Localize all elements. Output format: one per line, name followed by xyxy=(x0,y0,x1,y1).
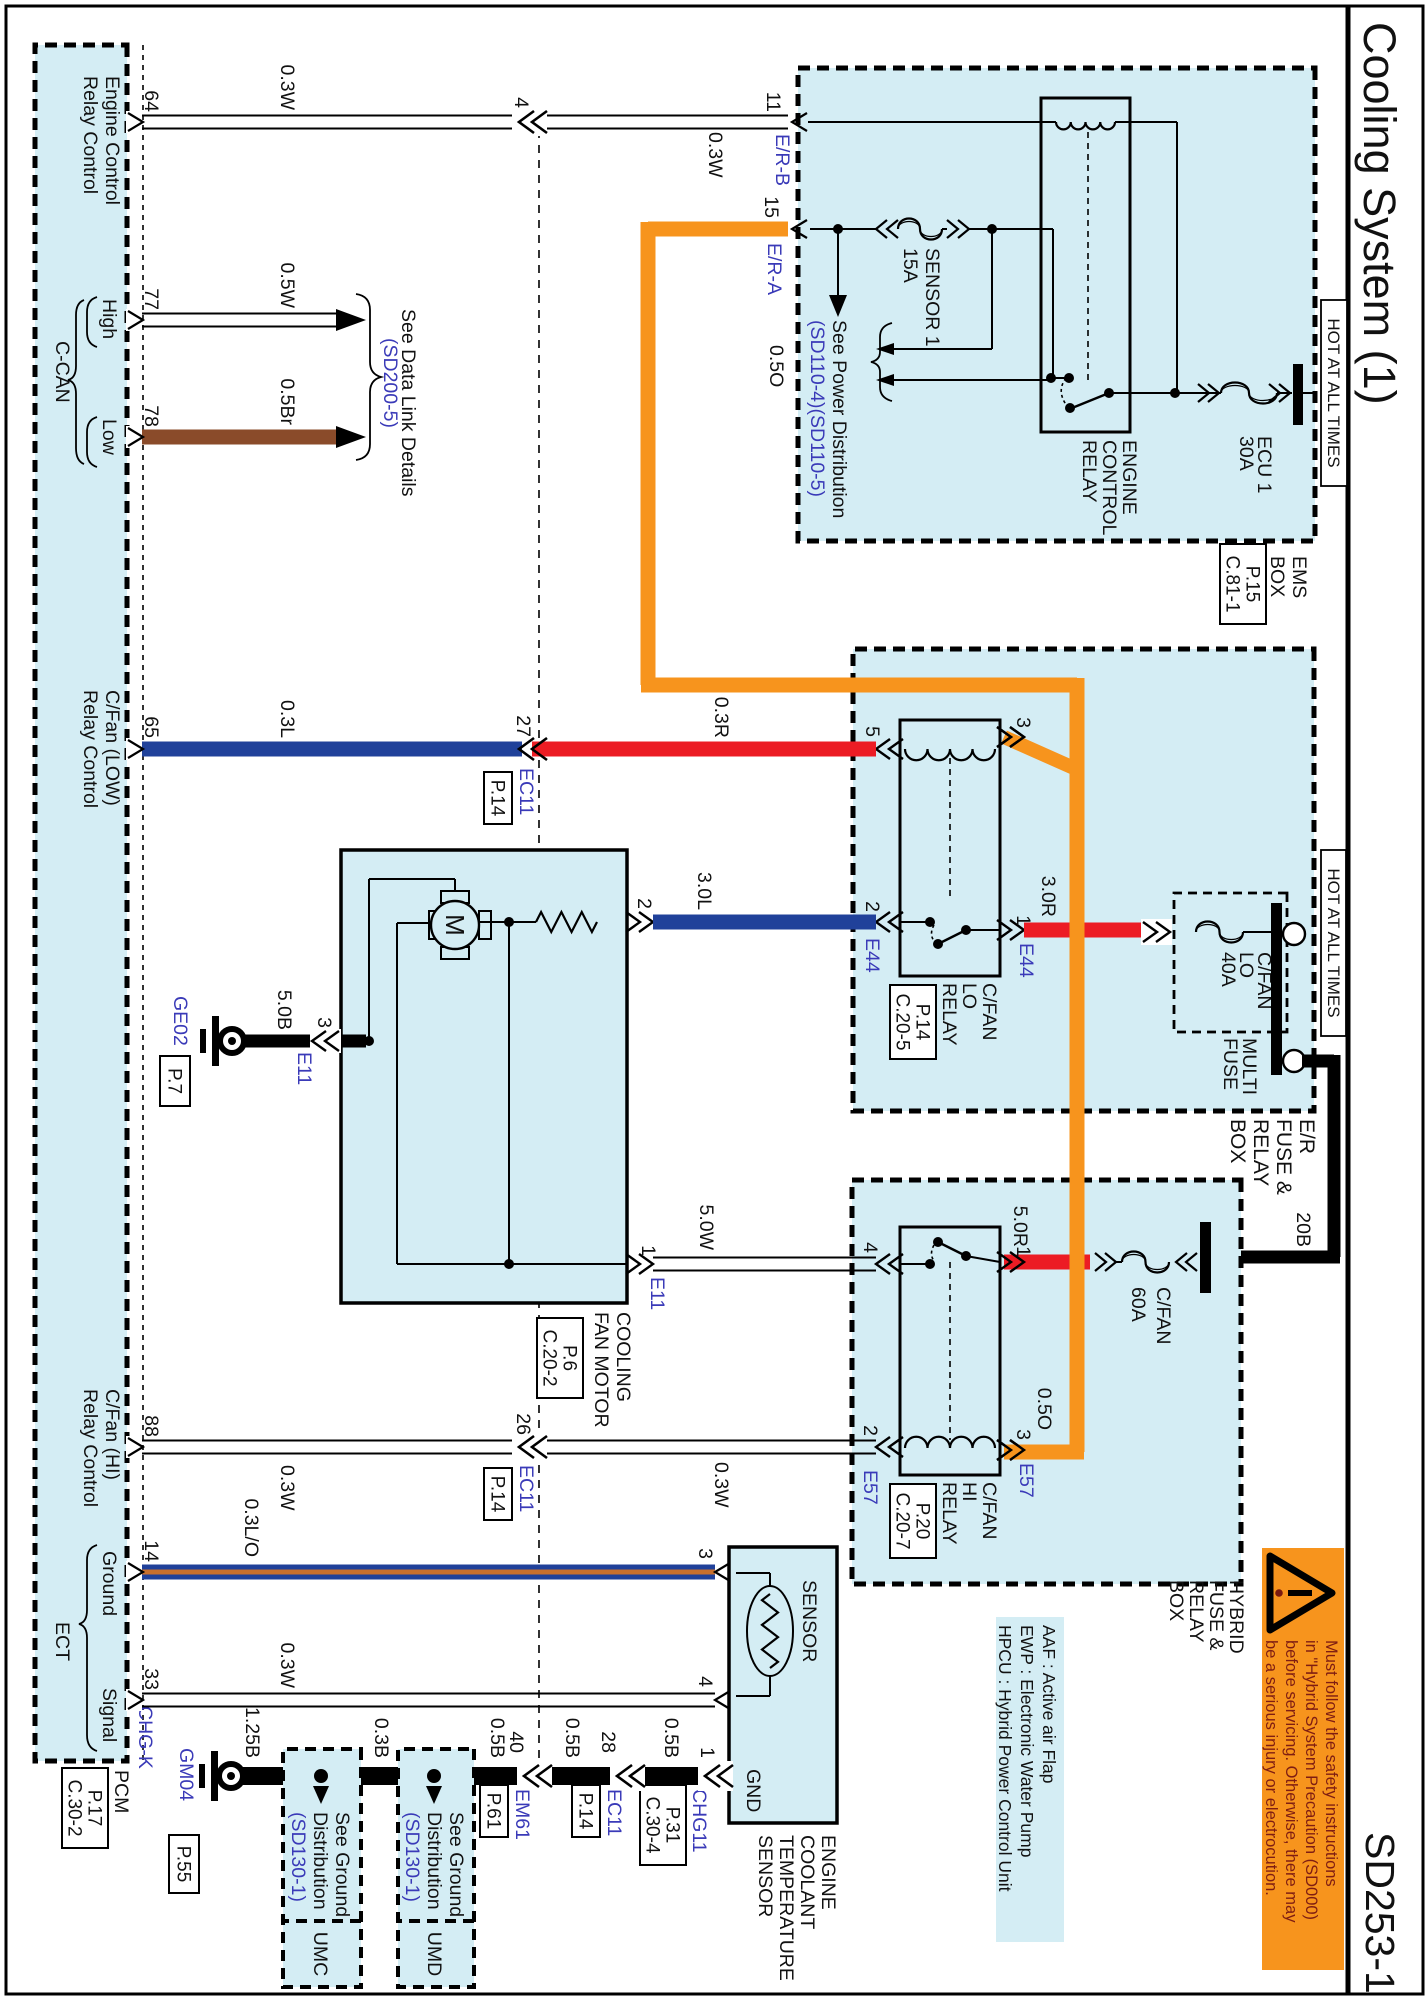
fuse F1: C/FAN LO 40A box xyxy=(1174,893,1287,1032)
svg-text:26: 26 xyxy=(512,1413,534,1435)
svg-text:HI: HI xyxy=(958,1482,980,1502)
motor pin 3 chevron + wire 5.0B to ground xyxy=(341,1035,366,1048)
LO relay pin 1 chevron xyxy=(1010,920,1024,940)
svg-text:See Ground: See Ground xyxy=(331,1812,353,1917)
warning triangle xyxy=(1270,1556,1332,1630)
ground GM04 xyxy=(219,1764,243,1788)
wire 0.5Br: PCM 78 to data link (brown) xyxy=(127,430,336,445)
EMS connector ref box P.15 C.81-1 xyxy=(1220,544,1266,624)
svg-text:E11: E11 xyxy=(646,1277,668,1310)
svg-text:0.3W: 0.3W xyxy=(276,1642,298,1688)
svg-text:5.0B: 5.0B xyxy=(273,990,295,1030)
svg-text:4: 4 xyxy=(694,1676,716,1687)
EMS pin 15 chevron (E/R-A) xyxy=(792,220,807,238)
LO relay ref box P.14 C.20-5 xyxy=(890,985,936,1059)
svg-text:EC11: EC11 xyxy=(515,1465,537,1512)
svg-text:60A: 60A xyxy=(1127,1287,1149,1322)
svg-text:0.3W: 0.3W xyxy=(276,1465,298,1511)
E/R FUSE & RELAY BOX (dashed) xyxy=(853,649,1314,1111)
svg-text:See Ground: See Ground xyxy=(445,1812,467,1917)
wire 0.5O: EMS pin 15 orange trunk xyxy=(648,222,788,237)
LO relay coil xyxy=(905,749,995,760)
motor ref box P.6 C.20-2 xyxy=(537,1318,583,1398)
node dot at B+ rail xyxy=(1170,388,1180,398)
svg-text:ENGINE: ENGINE xyxy=(1118,440,1140,515)
svg-text:E11: E11 xyxy=(293,1052,315,1085)
svg-text:SENSOR: SENSOR xyxy=(754,1835,776,1917)
LO relay switch xyxy=(900,921,926,923)
svg-text:1: 1 xyxy=(696,1747,718,1758)
svg-text:C.20-2: C.20-2 xyxy=(539,1329,560,1386)
fuse F2: C/FAN 60A xyxy=(1200,1222,1211,1293)
svg-text:C/Fan (HI): C/Fan (HI) xyxy=(101,1389,123,1480)
relay internal dashed link xyxy=(1087,132,1089,385)
HI relay switch xyxy=(900,1263,926,1265)
PCM connector dashed line xyxy=(142,45,144,1761)
svg-text:P.6: P.6 xyxy=(559,1345,580,1371)
svg-text:EC11: EC11 xyxy=(603,1789,625,1836)
in-line connector 26 (EC11) xyxy=(512,1433,547,1461)
svg-text:33: 33 xyxy=(140,1668,162,1690)
svg-text:88: 88 xyxy=(140,1415,162,1437)
sensor ref box P.31 C.30-4 xyxy=(640,1785,686,1865)
PCM pin 64 chevron xyxy=(126,111,142,133)
svg-text:P.61: P.61 xyxy=(483,1793,504,1830)
sensor pin 4 chevron xyxy=(715,1691,730,1709)
svg-text:Low: Low xyxy=(98,419,120,456)
svg-text:RELAY: RELAY xyxy=(938,1482,960,1545)
svg-text:(SD200-5): (SD200-5) xyxy=(379,338,401,428)
svg-text:28: 28 xyxy=(597,1731,619,1753)
svg-text:P.20: P.20 xyxy=(912,1503,933,1540)
orange trunk top layer (crosses red wires) xyxy=(1070,678,1077,693)
svg-text:RELAY: RELAY xyxy=(1078,440,1100,503)
svg-text:CHG11: CHG11 xyxy=(688,1789,710,1853)
svg-text:0.3L/O: 0.3L/O xyxy=(240,1498,262,1557)
orange redraw over hybrid box xyxy=(1070,1180,1085,1452)
svg-text:5: 5 xyxy=(861,726,883,737)
HOT AT ALL TIMES label 2 xyxy=(1321,850,1346,1036)
svg-text:COOLING: COOLING xyxy=(612,1312,634,1402)
svg-text:HPCU : Hybrid Power Control Un: HPCU : Hybrid Power Control Unit xyxy=(995,1625,1015,1892)
svg-text:FAN MOTOR: FAN MOTOR xyxy=(590,1312,612,1428)
LO relay pin 3 chevron xyxy=(1010,727,1024,747)
svg-text:E/R-B: E/R-B xyxy=(771,134,793,186)
data link brace xyxy=(356,294,381,460)
connector 1 chevron (CHG11) xyxy=(698,1761,733,1791)
svg-text:TEMPERATURE: TEMPERATURE xyxy=(775,1835,797,1981)
svg-text:before servicing. Otherwise, t: before servicing. Otherwise, there may xyxy=(1282,1640,1300,1923)
svg-text:77: 77 xyxy=(140,288,162,310)
motor pin 2 chevron xyxy=(639,912,653,932)
svg-text:Signal: Signal xyxy=(98,1688,120,1742)
svg-text:FUSE &: FUSE & xyxy=(1205,1580,1227,1650)
svg-text:C.20-7: C.20-7 xyxy=(892,1492,913,1549)
svg-text:(SD130-1): (SD130-1) xyxy=(287,1812,309,1902)
B+ rail vertical wire xyxy=(1109,392,1177,394)
relay switch NO contact xyxy=(1064,373,1074,383)
LO relay pin 2 chevron xyxy=(876,912,890,932)
title divider line xyxy=(1346,6,1351,1994)
wire 3.0R: LO relay pin 1 to C/FAN LO fuse (red) xyxy=(1024,923,1146,938)
motor internal wiring xyxy=(512,921,536,923)
svg-text:See Power Distribution: See Power Distribution xyxy=(828,320,850,518)
sensor fuse feed wire xyxy=(810,228,876,230)
ground distribution box UMC xyxy=(283,1749,361,1987)
svg-text:1.25B: 1.25B xyxy=(241,1707,263,1758)
relay K1: C/FAN LO RELAY rect xyxy=(900,720,1000,976)
svg-text:1: 1 xyxy=(1012,1246,1034,1257)
svg-text:(SD130-1): (SD130-1) xyxy=(401,1812,423,1902)
wire 0.3W: PCM pin 64 to EMS pin 11 xyxy=(535,115,788,117)
wire 0.5B/1.25B: sensor GND to GM04 (black bus) xyxy=(238,1767,729,1785)
svg-text:PCM: PCM xyxy=(110,1770,132,1813)
svg-text:3.0L: 3.0L xyxy=(693,872,715,910)
harness connector dashed line EC11 boundary xyxy=(538,130,540,1766)
svg-text:1: 1 xyxy=(637,1245,659,1256)
svg-text:CHG-K: CHG-K xyxy=(134,1706,156,1769)
HI relay pin 3 chevron xyxy=(1010,1440,1024,1460)
svg-text:30A: 30A xyxy=(1235,436,1257,471)
EMS pin 11 chevron xyxy=(808,121,1056,123)
svg-text:C.30-2: C.30-2 xyxy=(64,1779,85,1836)
svg-text:2: 2 xyxy=(859,1425,881,1436)
svg-text:ECT: ECT xyxy=(51,1622,73,1661)
HI relay internal dashed link xyxy=(949,1262,951,1440)
svg-text:11: 11 xyxy=(762,92,784,112)
svg-text:E44: E44 xyxy=(1015,943,1037,978)
HI relay pin 4 chevron xyxy=(876,1254,890,1274)
svg-text:0.3L: 0.3L xyxy=(276,700,298,738)
relay switch: stationary contact xyxy=(1104,388,1114,398)
motor internal resistor xyxy=(536,912,597,932)
svg-text:P.14: P.14 xyxy=(487,780,508,817)
svg-text:GE02: GE02 xyxy=(169,996,191,1046)
fuse SENSOR 1 15A xyxy=(876,220,887,238)
wire 0.3W: PCM 33 to sensor pin 4 xyxy=(127,1693,715,1695)
svg-text:C/FAN: C/FAN xyxy=(978,1482,1000,1539)
svg-text:High: High xyxy=(98,299,120,339)
svg-text:C.81-1: C.81-1 xyxy=(1222,555,1243,612)
svg-text:BOX: BOX xyxy=(1266,556,1288,597)
svg-text:RELAY: RELAY xyxy=(1249,1119,1272,1186)
svg-text:5.0W: 5.0W xyxy=(695,1204,717,1250)
svg-text:GM04: GM04 xyxy=(175,1748,197,1801)
svg-text:C/FAN: C/FAN xyxy=(1152,1287,1174,1344)
branch dot + arrow to UMD xyxy=(427,1769,441,1783)
svg-text:UMC: UMC xyxy=(309,1932,331,1976)
branch dot + arrow to UMC xyxy=(314,1769,328,1783)
warning box xyxy=(1262,1548,1344,1970)
svg-text:3.0R: 3.0R xyxy=(1037,876,1059,917)
svg-text:M: M xyxy=(440,914,470,936)
svg-text:C/FAN: C/FAN xyxy=(978,983,1000,1040)
svg-text:4: 4 xyxy=(510,97,532,108)
svg-text:C.20-5: C.20-5 xyxy=(892,993,913,1050)
svg-text:15A: 15A xyxy=(899,248,921,283)
PCM component strip xyxy=(35,45,127,1761)
motor M1 symbol xyxy=(441,891,469,903)
svg-text:E57: E57 xyxy=(859,1470,881,1505)
svg-text:Relay Control: Relay Control xyxy=(79,1389,101,1507)
svg-text:0.5B: 0.5B xyxy=(660,1718,682,1758)
svg-text:E44: E44 xyxy=(861,938,883,973)
LO relay pin 5 chevron xyxy=(876,739,890,759)
svg-text:Must follow the safety instruc: Must follow the safety instructions xyxy=(1322,1640,1340,1887)
PCM pin 88 chevron xyxy=(126,1436,142,1458)
wire 0.3R: conn 27 to LO relay pin 5 (red) xyxy=(532,742,876,757)
svg-text:0.5W: 0.5W xyxy=(276,262,298,308)
svg-text:14: 14 xyxy=(140,1540,162,1562)
svg-text:BOX: BOX xyxy=(1226,1119,1249,1163)
svg-text:SENSOR 1: SENSOR 1 xyxy=(921,248,943,347)
svg-text:SENSOR: SENSOR xyxy=(798,1580,820,1662)
relay K2: C/FAN HI RELAY rect xyxy=(900,1227,1000,1475)
svg-text:0.3W: 0.3W xyxy=(710,1462,732,1508)
arrow to power distribution xyxy=(837,229,839,295)
svg-text:0.5Br: 0.5Br xyxy=(276,378,298,425)
svg-text:0.3W: 0.3W xyxy=(276,64,298,110)
svg-text:0.3R: 0.3R xyxy=(710,697,732,738)
svg-text:HOT AT ALL TIMES: HOT AT ALL TIMES xyxy=(1324,868,1343,1017)
svg-text:HYBRID: HYBRID xyxy=(1225,1580,1247,1654)
COOLING FAN MOTOR box xyxy=(341,850,627,1303)
svg-text:GND: GND xyxy=(742,1769,764,1812)
in-line connector 28 (EC11) xyxy=(610,1761,645,1791)
fuse ECU 1 30A xyxy=(1198,392,1221,394)
svg-text:P.17: P.17 xyxy=(84,1790,105,1827)
ECU1 fuse bus bar xyxy=(1293,364,1303,425)
wire 0.5W: PCM 77 to data link xyxy=(127,313,338,315)
motor pin 1 chevron xyxy=(639,1254,653,1274)
ENGINE COOLANT TEMPERATURE SENSOR box xyxy=(729,1547,837,1823)
svg-text:RELAY: RELAY xyxy=(1185,1580,1207,1643)
wire 3.0L: LO relay pin 2 to motor pin 2 (blue) xyxy=(653,915,876,930)
wire 0.3L/O: PCM 14 to sensor pin 3 (blue/orange) xyxy=(127,1565,715,1580)
svg-text:0.5B: 0.5B xyxy=(486,1718,508,1758)
wire 20B: multifuse to C/FAN 60A (black) xyxy=(1302,1055,1334,1068)
svg-text:Engine Control: Engine Control xyxy=(101,76,123,205)
svg-text:Distribution: Distribution xyxy=(309,1812,331,1910)
svg-text:4: 4 xyxy=(859,1242,881,1253)
ground GE02 xyxy=(220,1029,244,1053)
orange redraw over box fill xyxy=(641,678,1077,693)
svg-text:EMS: EMS xyxy=(1288,556,1310,598)
svg-text:0.5O: 0.5O xyxy=(765,345,787,387)
relay switch arm xyxy=(1072,393,1109,408)
svg-text:40A: 40A xyxy=(1217,952,1239,987)
MULTI FUSE terminal circles xyxy=(1283,923,1305,945)
branch arrows (to SD110 circuits) xyxy=(991,229,993,349)
svg-text:LO: LO xyxy=(958,983,980,1009)
wire from fuse to switch xyxy=(1052,229,1054,378)
svg-text:Relay Control: Relay Control xyxy=(79,76,101,194)
svg-text:CONTROL: CONTROL xyxy=(1098,440,1120,535)
svg-text:C.30-4: C.30-4 xyxy=(642,1796,663,1853)
svg-text:P.31: P.31 xyxy=(662,1807,683,1844)
HI relay coil xyxy=(905,1437,995,1448)
in-line connector 40 (EM61) xyxy=(517,1761,552,1791)
svg-text:3: 3 xyxy=(694,1548,716,1559)
HI relay pin 2 chevron xyxy=(876,1437,890,1457)
svg-text:P.14: P.14 xyxy=(575,1793,596,1830)
svg-text:Distribution: Distribution xyxy=(423,1812,445,1910)
svg-text:E/R: E/R xyxy=(1295,1119,1318,1154)
legend box xyxy=(996,1617,1064,1942)
svg-text:SD253-1: SD253-1 xyxy=(1357,1832,1403,1994)
relay coil (on pin11 wire) xyxy=(1056,122,1115,129)
svg-text:Ground: Ground xyxy=(98,1551,120,1616)
svg-text:E/R-A: E/R-A xyxy=(763,243,785,295)
HI relay ref box P.20 C.20-7 xyxy=(890,1484,936,1558)
svg-text:64: 64 xyxy=(140,90,162,112)
EMS BOX (dashed) xyxy=(798,68,1315,541)
HI relay pin 3 chevron (over orange) xyxy=(1010,1440,1024,1460)
svg-text:3: 3 xyxy=(1012,717,1034,728)
svg-text:0.5B: 0.5B xyxy=(561,1718,583,1758)
svg-text:0.3B: 0.3B xyxy=(370,1718,392,1758)
PCM pin 33 chevron xyxy=(128,1691,143,1709)
wire 0.3L: PCM 65 to conn 27 (blue) xyxy=(127,742,522,757)
svg-text:FUSE: FUSE xyxy=(1219,1038,1241,1090)
wire 0.3W: PCM 88 to conn 26 to HI relay pin 2 xyxy=(535,1440,876,1442)
svg-text:P.14: P.14 xyxy=(487,1476,508,1513)
HOT AT ALL TIMES label 1 xyxy=(1321,300,1347,486)
svg-text:MULTI: MULTI xyxy=(1238,1038,1260,1095)
MULTI FUSE bus bar xyxy=(1271,903,1282,1075)
svg-text:15: 15 xyxy=(760,196,782,218)
svg-text:EWP : Electronic Water Pump: EWP : Electronic Water Pump xyxy=(1017,1625,1037,1857)
orange branch to C/FAN LO relay pin 3 xyxy=(1004,737,1076,769)
LO relay internal dashed link xyxy=(949,758,951,900)
PCM pin 14 chevron xyxy=(128,1563,143,1581)
fuse chevrons below 40A fuse xyxy=(1141,919,1172,945)
svg-text:2: 2 xyxy=(633,898,655,909)
svg-text:40: 40 xyxy=(505,1731,527,1753)
svg-text:FUSE &: FUSE & xyxy=(1272,1119,1295,1195)
svg-text:5.0R: 5.0R xyxy=(1009,1206,1031,1247)
svg-text:C-CAN: C-CAN xyxy=(51,341,73,403)
svg-text:P.55: P.55 xyxy=(173,1846,194,1883)
svg-text:65: 65 xyxy=(140,716,162,738)
svg-text:2: 2 xyxy=(861,901,883,912)
svg-text:EC11: EC11 xyxy=(515,768,537,815)
svg-text:Relay Control: Relay Control xyxy=(79,690,101,808)
engine control relay U: rect xyxy=(1041,98,1130,432)
wire: coil top to B+ node xyxy=(1115,121,1177,123)
svg-text:P.15: P.15 xyxy=(1242,566,1263,603)
svg-text:Cooling System (1): Cooling System (1) xyxy=(1354,22,1405,405)
svg-text:BOX: BOX xyxy=(1165,1580,1187,1621)
svg-text:RELAY: RELAY xyxy=(938,983,960,1046)
svg-text:P.14: P.14 xyxy=(912,1004,933,1041)
ground distribution box UMD xyxy=(398,1749,474,1987)
wire 5.0W: HI relay pin 4 to motor pin 1 (white) xyxy=(653,1257,876,1259)
svg-text:AAF : Active air Flap: AAF : Active air Flap xyxy=(1039,1625,1059,1784)
svg-text:C/Fan (LOW): C/Fan (LOW) xyxy=(101,690,123,806)
svg-text:0.5O: 0.5O xyxy=(1033,1388,1055,1430)
svg-text:EM61: EM61 xyxy=(511,1789,533,1840)
in-line connector 27 (EC11) xyxy=(532,738,547,760)
sensor thermistor xyxy=(747,1586,793,1676)
sensor pin 3 chevron xyxy=(715,1563,730,1581)
svg-text:3: 3 xyxy=(313,1017,335,1028)
svg-text:(SD110-4)(SD110-5): (SD110-4)(SD110-5) xyxy=(806,320,828,497)
svg-text:in "Hybrid System Precaution (: in "Hybrid System Precaution (SD000) xyxy=(1302,1640,1320,1920)
LO relay pin 3 chevron (over orange) xyxy=(1010,727,1024,747)
in-line connector 4 xyxy=(512,108,547,136)
svg-text:E57: E57 xyxy=(1015,1463,1037,1498)
svg-text:COOLANT: COOLANT xyxy=(796,1835,818,1929)
HYBRID FUSE & RELAY BOX (dashed) xyxy=(852,1180,1241,1584)
svg-text:be a serious injury or electro: be a serious injury or electrocution. xyxy=(1262,1640,1280,1896)
svg-text:0.3W: 0.3W xyxy=(704,132,726,178)
wire 5.0R: 60A fuse to HI relay pin 1 (red) xyxy=(1004,1255,1090,1270)
PCM connector ref box P.17 C.30-2 xyxy=(62,1768,108,1848)
svg-text:20B: 20B xyxy=(1292,1212,1314,1247)
svg-text:3: 3 xyxy=(1012,1429,1034,1440)
svg-text:UMD: UMD xyxy=(423,1932,445,1976)
wire fuse output to relay xyxy=(992,228,1053,230)
svg-text:HOT AT ALL TIMES: HOT AT ALL TIMES xyxy=(1324,318,1343,467)
svg-text:ENGINE: ENGINE xyxy=(817,1835,839,1910)
svg-text:27: 27 xyxy=(512,715,534,737)
svg-text:P.7: P.7 xyxy=(164,1068,185,1094)
HI relay pin 1 chevron xyxy=(1010,1252,1024,1272)
svg-text:78: 78 xyxy=(140,405,162,427)
PCM pin 65 chevron xyxy=(126,738,142,760)
